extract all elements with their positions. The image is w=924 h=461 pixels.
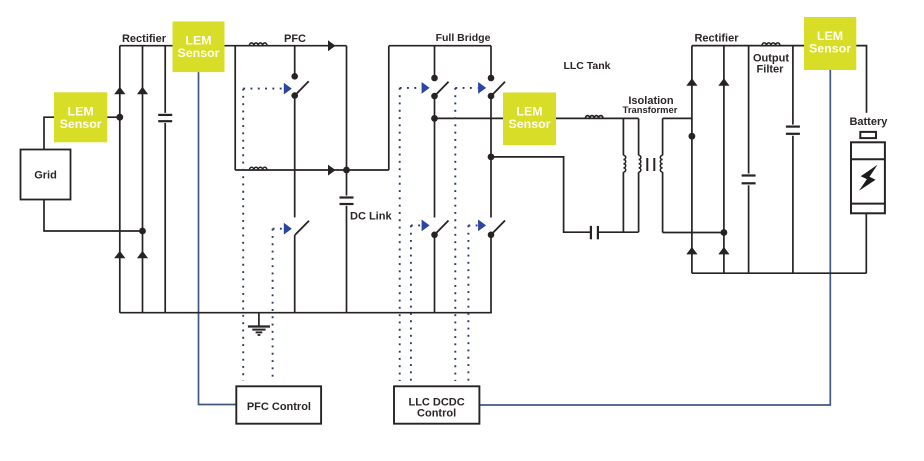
- wire (dotted) LLC control gate drive Q4: [455, 88, 477, 381]
- battery bolt icon: [859, 165, 878, 191]
- gate arrow Q4: [478, 82, 486, 94]
- PFC label: [284, 33, 306, 45]
- wire bottom bus (secondary side): [692, 272, 867, 274]
- LEM sensor (battery side): [804, 17, 856, 70]
- transformer T1 primary winding: [639, 118, 641, 232]
- wire (dotted) PFC Control gate drive Q2: [273, 229, 283, 381]
- wire top rail left: [120, 45, 173, 47]
- LEM sensor (grid side): [54, 92, 107, 142]
- wire grid top to LEM sensor: [44, 117, 55, 149]
- wire PFC phase1 drop to DC link node: [346, 46, 348, 170]
- transistor Q2 (PFC low switch): [295, 221, 309, 313]
- gate arrow Q5: [422, 220, 430, 232]
- diode D1 (PFC phase 1 boost diode): [328, 40, 336, 51]
- Rectifier label: [122, 33, 167, 45]
- node secondary top junction: [689, 133, 696, 140]
- LLC Tank label: [563, 60, 610, 72]
- ground: [248, 313, 270, 335]
- Full Bridge label: [436, 32, 491, 44]
- wire (blue) LEM sensor to PFC Control: [199, 72, 237, 404]
- wire resonant capacitor to transformer bottom: [599, 231, 639, 233]
- diode D4 (leg A bottom, arrow up): [114, 251, 125, 258]
- svg-text:PFC: PFC: [284, 33, 306, 45]
- svg-text:Grid: Grid: [34, 170, 57, 182]
- node DC link junction: [343, 167, 350, 174]
- wire top rail full bridge: [389, 45, 491, 47]
- diode D6 (leg B bottom, arrow up): [137, 251, 148, 258]
- gate arrow Q3: [422, 82, 430, 94]
- inductor L3 (LLC resonant): [585, 116, 603, 119]
- diode D8 (leg C bottom, arrow up): [686, 247, 697, 255]
- svg-text:Transformer: Transformer: [623, 104, 678, 115]
- gate arrow Q2: [284, 223, 292, 235]
- wire bridge right midpoint to resonant capacitor: [491, 157, 590, 232]
- inductor L1 (PFC phase 1): [249, 43, 267, 46]
- svg-text:LLC Tank: LLC Tank: [563, 60, 610, 72]
- wire battery to bottom bus: [865, 213, 867, 273]
- wire DC link riser: [388, 46, 390, 170]
- transistor Q1 (PFC high switch): [291, 46, 308, 218]
- capacitor C4 (output filter input): [742, 46, 756, 274]
- capacitor C3 (LLC resonant, series): [591, 226, 598, 239]
- Battery label: [849, 116, 888, 128]
- wire bridge left midpoint to LEM sensor: [435, 117, 504, 119]
- wire rectifier leg C: [691, 46, 693, 274]
- svg-text:Sensor: Sensor: [508, 117, 550, 131]
- diode D3 (leg A top, arrow up): [114, 87, 125, 95]
- transformer T1 core: [647, 158, 654, 171]
- LEM sensor (LLC tank): [503, 93, 556, 146]
- gate arrow Q1: [284, 83, 292, 95]
- svg-text:Full Bridge: Full Bridge: [436, 32, 491, 44]
- wire (dotted) PFC Control gate drive Q1: [243, 89, 283, 381]
- svg-text:DC Link: DC Link: [350, 211, 392, 223]
- diode D10 (leg D bottom, arrow up): [718, 247, 729, 255]
- LEM sensor (PFC input): [173, 22, 225, 73]
- svg-text:PFC Control: PFC Control: [247, 401, 311, 413]
- capacitor C5 (output filter): [786, 46, 800, 274]
- svg-text:Sensor: Sensor: [809, 42, 851, 56]
- wire (blue) LEM sensor to LLC DCDC Control: [479, 70, 830, 405]
- diode D9 (leg D top, arrow up): [718, 78, 729, 86]
- inductor L4 (magnetizing winding): [623, 118, 625, 232]
- inductor L2 (PFC phase 2): [249, 167, 267, 170]
- wire (dotted) LLC control gate drive Q3: [400, 88, 421, 381]
- transformer T1 secondary winding: [660, 118, 662, 232]
- diode D5 (leg B top, arrow up): [137, 87, 148, 95]
- Output Filter label: [753, 53, 789, 76]
- LLC DCDC Control box: [394, 386, 479, 423]
- PFC Control box: [236, 386, 321, 423]
- wire (dotted) LLC control gate drive Q6: [468, 225, 477, 381]
- svg-text:Filter: Filter: [757, 63, 785, 75]
- inductor L5 (output filter): [762, 43, 780, 46]
- gate arrow Q6: [478, 220, 486, 232]
- Isolation Transformer label: [623, 95, 678, 115]
- wire bottom bus (primary side): [120, 312, 492, 314]
- capacitor C1 (rectifier filter): [158, 46, 172, 313]
- node PFC input split: [234, 46, 236, 170]
- wire LEM sensor to rectifier leg A: [107, 116, 120, 118]
- wire secondary top to rectifier: [663, 117, 692, 119]
- wire top rail secondary: [692, 45, 804, 47]
- wire LEM sensor to battery: [856, 46, 866, 113]
- svg-text:Control: Control: [417, 408, 456, 420]
- wire mid rail PFC phase 2: [235, 169, 389, 171]
- diode D2 (PFC phase 2 boost diode): [328, 165, 336, 176]
- svg-text:Sensor: Sensor: [60, 117, 102, 131]
- wire rectifier leg D: [723, 46, 725, 274]
- DC Link label: [350, 211, 392, 223]
- svg-text:Battery: Battery: [849, 116, 888, 128]
- transistor Q6 (bridge lower right): [488, 157, 505, 313]
- wire LEM sensor to resonant inductor: [556, 117, 639, 119]
- Rectifier (output) label: [694, 33, 739, 45]
- wire (dotted) LLC control gate drive Q5: [411, 225, 421, 381]
- wire rectifier leg A: [119, 46, 121, 313]
- node B (leg B / grid return junction): [139, 228, 146, 235]
- svg-text:Rectifier: Rectifier: [122, 33, 167, 45]
- transistor Q4 (bridge upper right): [488, 46, 505, 157]
- node A (leg A / LEM input junction): [116, 114, 123, 121]
- svg-text:Sensor: Sensor: [177, 46, 219, 60]
- node secondary bottom junction: [721, 229, 728, 236]
- wire secondary bottom to rectifier: [663, 232, 724, 234]
- grid box: [21, 150, 71, 200]
- node bridge right midpoint: [488, 154, 495, 161]
- node bridge left midpoint: [431, 115, 438, 122]
- diode D7 (leg C top, arrow up): [686, 78, 697, 86]
- transistor Q5 (bridge lower left): [431, 118, 448, 312]
- wire top rail PFC input: [225, 45, 347, 47]
- svg-text:Rectifier: Rectifier: [694, 33, 739, 45]
- wire grid bottom to rectifier node: [44, 200, 143, 232]
- capacitor C2 (DC link): [340, 170, 354, 313]
- wire rectifier leg B: [142, 46, 144, 313]
- battery BT1: [851, 132, 885, 213]
- transistor Q3 (bridge upper left): [431, 46, 448, 119]
